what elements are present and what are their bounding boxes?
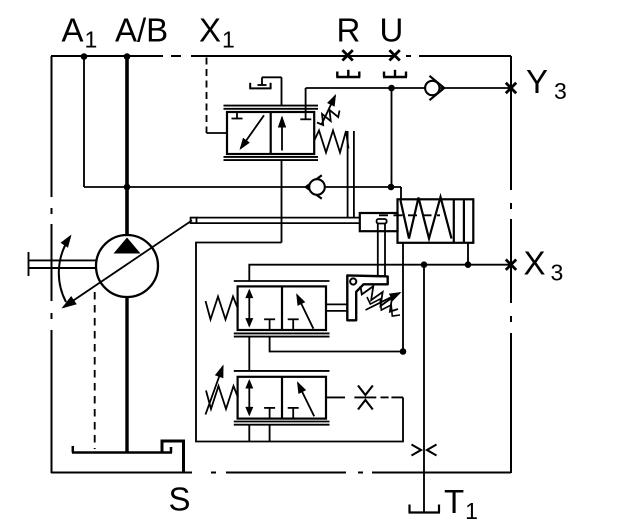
- svg-text:U: U: [380, 12, 404, 49]
- svg-text:R: R: [337, 12, 361, 49]
- svg-text:S: S: [169, 481, 191, 518]
- svg-text:A/B: A/B: [115, 12, 168, 49]
